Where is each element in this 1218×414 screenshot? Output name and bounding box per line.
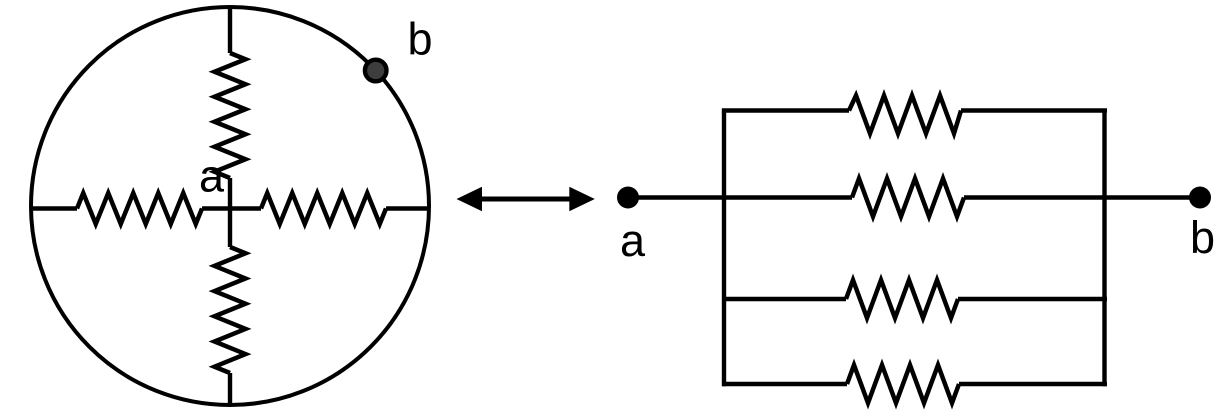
wire resistor to b (964, 195, 1200, 199)
resistor R4 (right horizontal) (261, 193, 386, 224)
circle (sphere outline) (31, 7, 429, 405)
resistor R7 (third branch) (846, 280, 958, 318)
branch 1 left wire (722, 108, 849, 112)
resistor R3 (left horizontal) (77, 193, 202, 224)
resistor R6 (second branch) (852, 179, 964, 217)
resistor R5 (top branch) (849, 96, 961, 134)
resistor R2 (bottom vertical) (215, 247, 246, 373)
wire horizontal left lead (31, 206, 77, 210)
wire horizontal right lead (386, 206, 428, 210)
branch 4 right wire (959, 382, 1107, 386)
resistor R1 (top vertical) (215, 53, 246, 178)
wire a to left rail (628, 195, 852, 199)
branch 1 right wire (961, 108, 1107, 112)
branch 3 left wire (722, 297, 846, 301)
branch 4 left wire (722, 382, 847, 386)
right rail wire (1102, 109, 1106, 387)
equivalence arrow (double headed) (457, 187, 595, 211)
terminal a dot (right circuit) (617, 187, 639, 209)
node b terminal dot on circle (365, 60, 387, 82)
wire vertical top lead (228, 7, 232, 53)
wire horizontal center (through node a) (202, 206, 261, 210)
left rail wire (722, 109, 726, 387)
svg-text:a: a (620, 215, 646, 266)
svg-text:b: b (1190, 212, 1215, 263)
wire vertical middle (through node a) (228, 178, 232, 247)
wire vertical bottom lead (228, 373, 232, 404)
branch 3 right wire (958, 297, 1107, 301)
svg-text:a: a (199, 151, 225, 202)
svg-text:b: b (408, 14, 433, 65)
resistor R8 (bottom branch) (847, 365, 959, 403)
terminal b dot (right circuit) (1189, 187, 1211, 209)
